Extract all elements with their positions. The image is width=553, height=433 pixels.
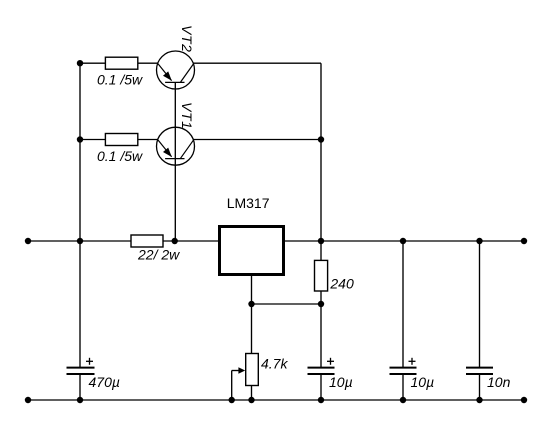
junction ground rail right end <box>521 397 527 403</box>
wire R2 to VT1 emitter <box>138 139 158 141</box>
junction 10n cap on rail <box>476 238 482 244</box>
svg-text:470µ: 470µ <box>89 374 120 390</box>
wire ADJ to pot top <box>251 304 253 354</box>
junction 10u out cap on ground <box>400 397 406 403</box>
wire base line VT2/VT1 down to rail <box>174 82 176 241</box>
wire 470u cap bottom lead <box>79 375 81 401</box>
resistor 240 <box>315 260 328 291</box>
resistor 0.1/5w (VT2 emitter) <box>105 57 137 69</box>
junction ground rail left end <box>25 397 31 403</box>
junction output rail right end <box>521 238 527 244</box>
svg-text:VT1: VT1 <box>179 102 195 129</box>
resistor 0.1/5w (VT1 emitter) <box>105 134 137 146</box>
wire ground rail <box>28 399 524 401</box>
wire 10u out cap top lead <box>402 241 404 367</box>
transistor VT1 <box>157 127 195 165</box>
junction input rail left end <box>25 238 31 244</box>
wire 10u out cap bottom lead <box>402 375 404 401</box>
svg-text:10µ: 10µ <box>411 374 435 390</box>
wire right collector vertical <box>320 63 322 241</box>
resistor 22/2w <box>131 235 163 247</box>
junction 470u on ground <box>77 397 83 403</box>
svg-text:0.1 /5w: 0.1 /5w <box>97 148 143 164</box>
plus sign C3 <box>409 358 416 365</box>
junction 240 bottom / ADJ line <box>318 301 324 307</box>
transistor VT2 <box>157 51 195 89</box>
junction left branch top <box>77 60 83 66</box>
wire VT1 collector to right vertical <box>193 139 321 141</box>
capacitor C2 10u (ADJ) plates <box>308 368 335 374</box>
plus sign C2 <box>327 358 334 365</box>
wire 240 top lead <box>320 241 322 260</box>
wire 10u adj cap top lead <box>320 304 322 367</box>
junction 10u out cap on rail <box>400 238 406 244</box>
capacitor C4 10n plates <box>466 368 493 374</box>
svg-text:22/ 2w: 22/ 2w <box>137 247 180 263</box>
junction VT1 collector / right vertical <box>318 136 324 142</box>
capacitor C1 470u plates <box>67 368 95 374</box>
wire input rail left segment <box>28 240 131 242</box>
junction 10u adj cap on ground <box>318 397 324 403</box>
potentiometer 4.7k wiper arrowhead <box>238 367 245 373</box>
capacitor C3 10u (OUT) plates <box>390 368 417 374</box>
potentiometer 4.7k body <box>246 354 259 386</box>
wire pot bottom lead <box>251 386 253 401</box>
junction output node <box>318 238 324 244</box>
svg-text:4.7k: 4.7k <box>261 356 288 372</box>
svg-text:LM317: LM317 <box>227 195 270 211</box>
wire 10n cap top lead <box>479 241 481 367</box>
wire R1 to VT2 emitter <box>138 62 158 64</box>
wire left branch vertical <box>79 63 81 241</box>
wire branch to R1 <box>80 62 105 64</box>
svg-text:0.1 /5w: 0.1 /5w <box>97 72 143 88</box>
junction left branch VT1 row <box>77 136 83 142</box>
wire pot wiper horizontal <box>232 370 242 372</box>
wire 240 bottom lead <box>320 291 322 304</box>
junction pot bottom on ground <box>248 397 254 403</box>
op-amp U1 regulator LM317 body <box>220 227 284 275</box>
wire 470u cap top lead <box>79 241 81 367</box>
wire LM317 ADJ down <box>251 276 253 304</box>
wire output rail from LM317 OUT to right end <box>285 240 524 242</box>
junction ADJ node <box>248 301 254 307</box>
junction wiper on ground <box>229 397 235 403</box>
wire 10u adj cap bottom lead <box>320 375 322 401</box>
wire VT2 collector to right vertical <box>193 62 321 64</box>
wire rail from 22/2w to LM317 IN <box>163 240 218 242</box>
svg-text:VT2: VT2 <box>179 25 195 52</box>
wire 10n cap bottom lead <box>479 375 481 401</box>
junction left branch / input rail <box>77 238 83 244</box>
svg-text:10n: 10n <box>487 374 511 390</box>
wire ADJ node horizontal <box>252 303 322 305</box>
plus sign C1 <box>86 358 93 365</box>
svg-text:10µ: 10µ <box>329 374 353 390</box>
wire pot wiper vertical to ground <box>231 371 233 401</box>
wire branch to R2 <box>80 139 105 141</box>
svg-text:240: 240 <box>329 276 354 292</box>
junction base node on rail <box>172 238 178 244</box>
junction 10n cap on ground <box>476 397 482 403</box>
